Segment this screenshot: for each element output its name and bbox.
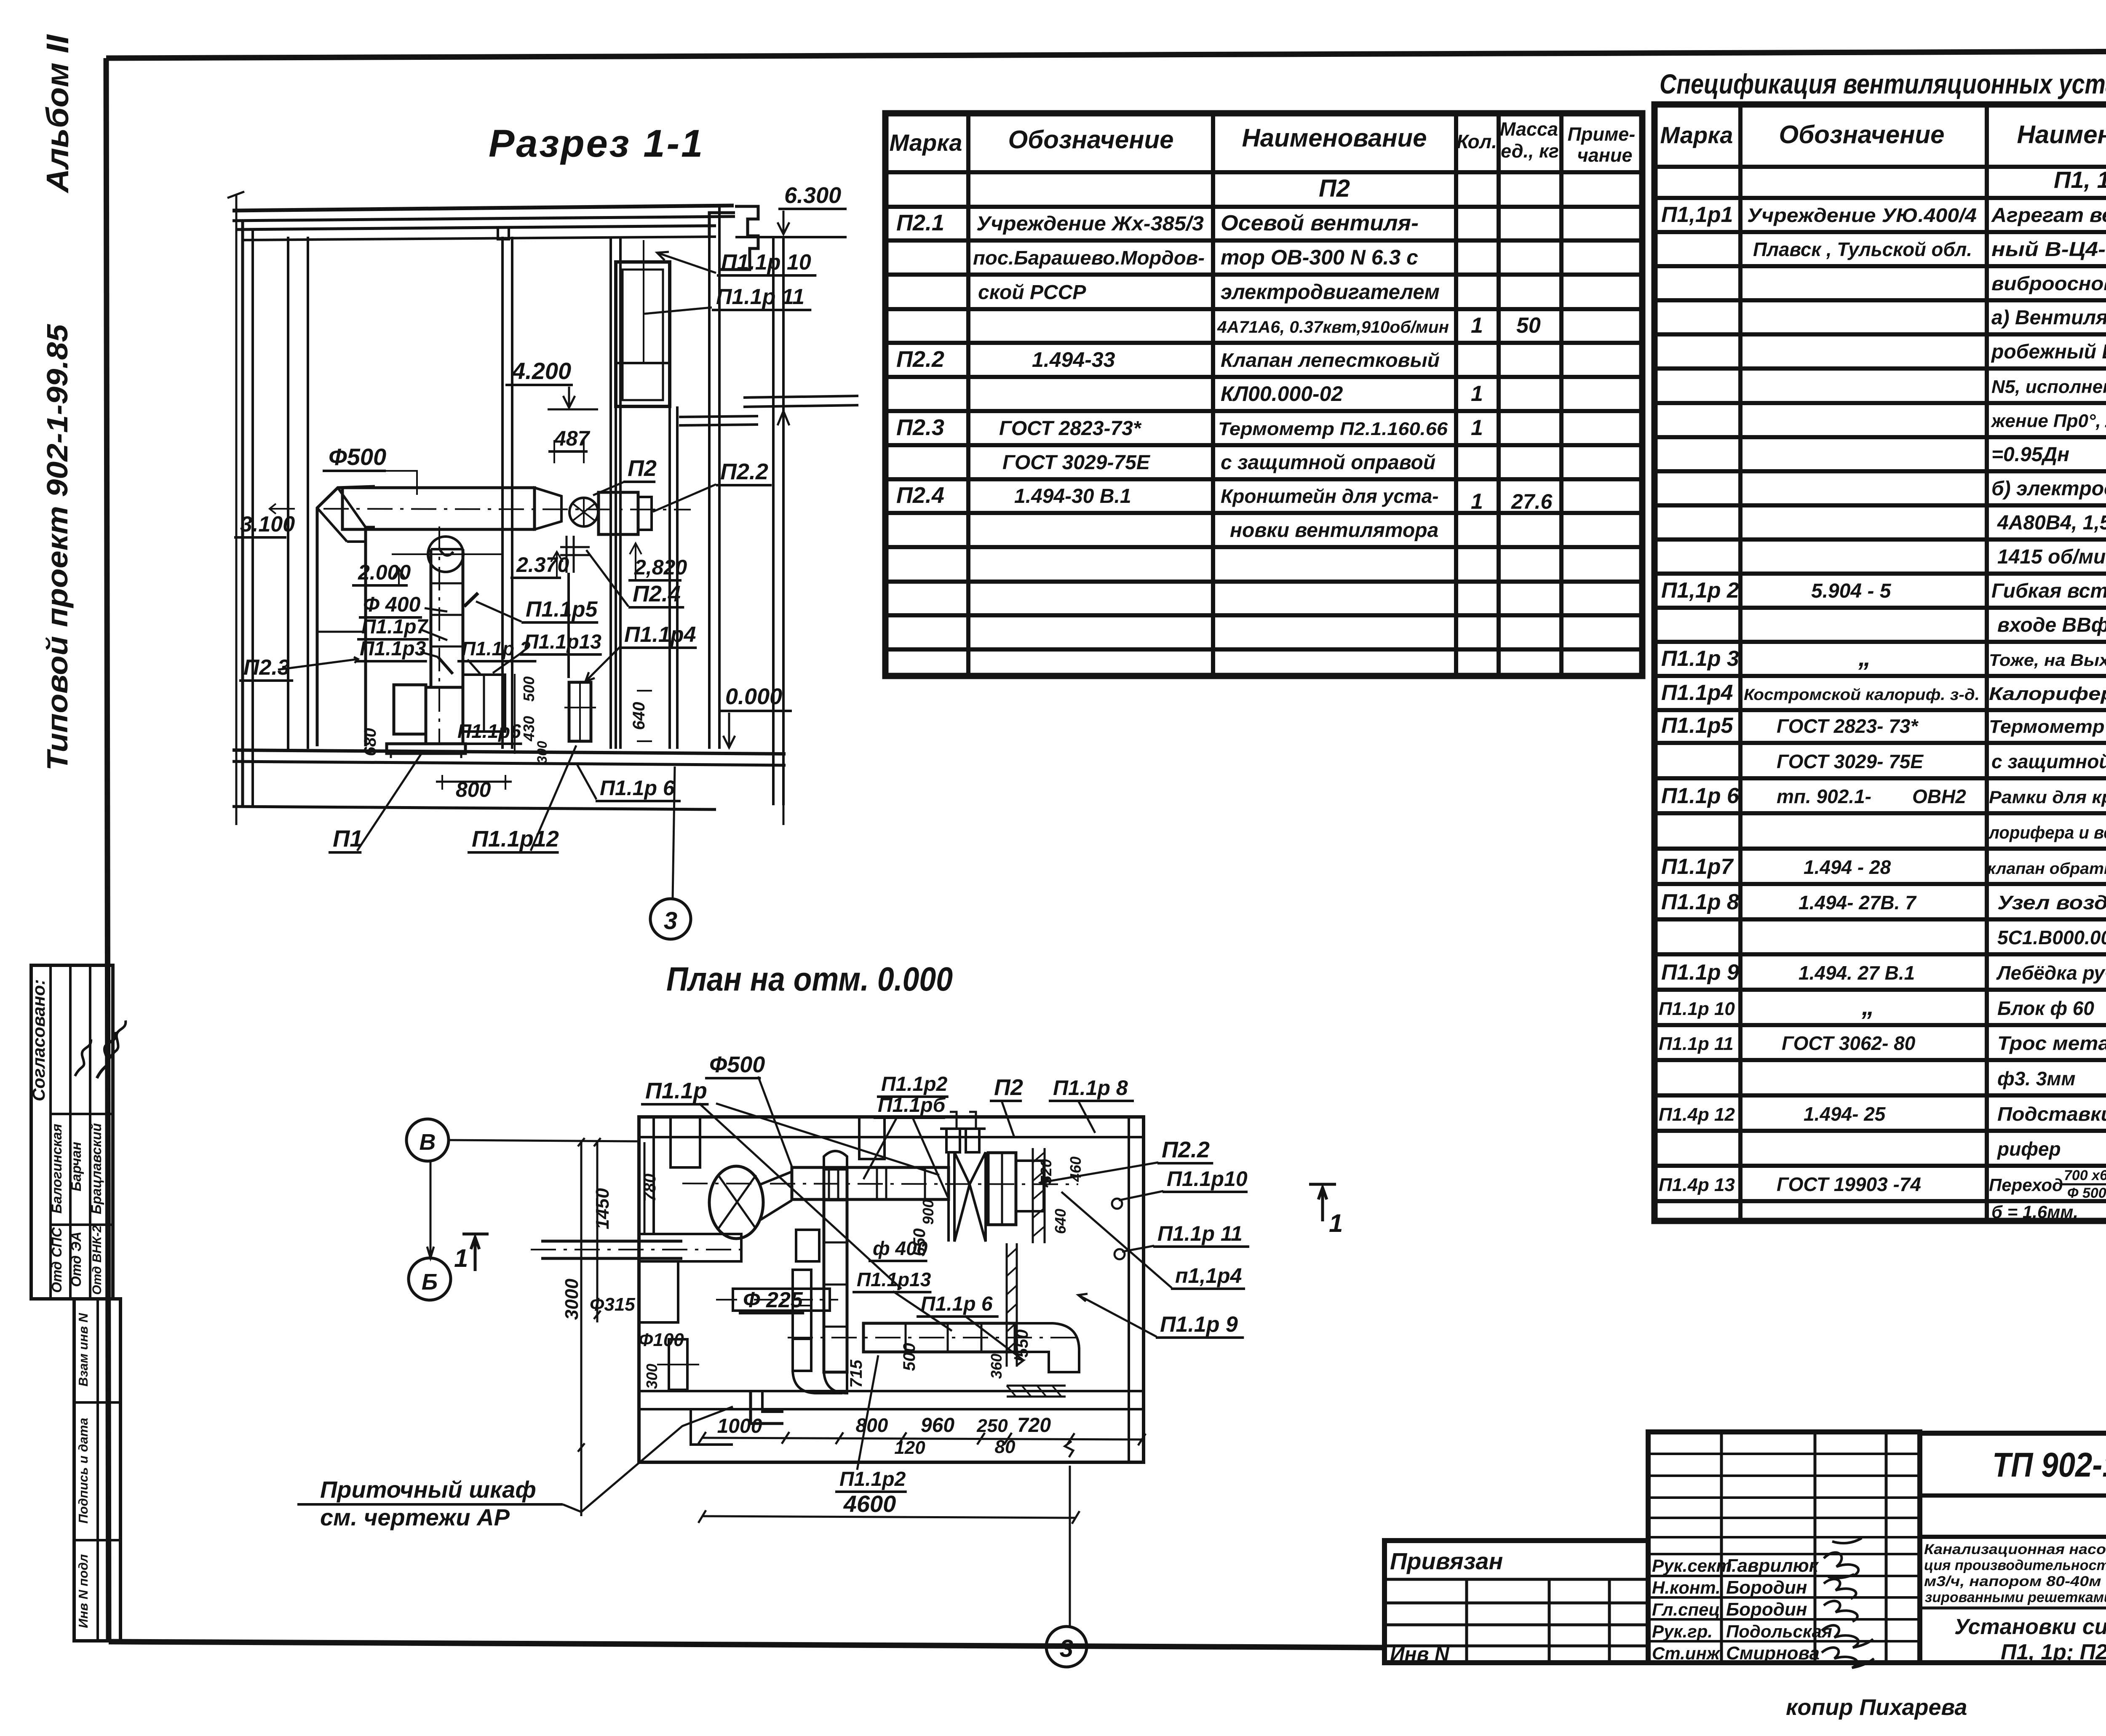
svg-text:виброосновании комп.: виброосновании комп.	[1991, 272, 2106, 294]
svg-text:Альбом II: Альбом II	[40, 34, 75, 194]
svg-text:П1.1р12: П1.1р12	[472, 826, 559, 852]
svg-text:тп. 902.1-: тп. 902.1-	[1777, 785, 1871, 807]
plan: second vertical duct leg	[793, 1270, 811, 1371]
svg-text:500: 500	[900, 1343, 919, 1371]
svg-text:360: 360	[988, 1354, 1005, 1379]
svg-text:N5, исполнение 1, поло-: N5, исполнение 1, поло-	[1991, 377, 2106, 397]
svg-text:Приточный шкаф: Приточный шкаф	[320, 1476, 536, 1503]
svg-text:Бородин: Бородин	[1726, 1577, 1807, 1598]
svg-text:27.6: 27.6	[1511, 490, 1553, 513]
svg-text:П1.1р 9: П1.1р 9	[1160, 1312, 1238, 1337]
plan: small pipe F100 lower-left	[669, 1339, 687, 1390]
svg-text:П1.1р6: П1.1р6	[457, 720, 521, 742]
plan: duct piece to wall	[1016, 1161, 1044, 1211]
section: wall below window	[615, 406, 617, 749]
plan: bottom hatched strip	[1007, 1386, 1061, 1397]
svg-text:П2.4: П2.4	[896, 483, 944, 508]
title block: middle signature grid	[1648, 1432, 1920, 1663]
svg-text:Отд ЭА: Отд ЭА	[68, 1231, 84, 1287]
svg-text:П1.1р 9: П1.1р 9	[1661, 960, 1739, 985]
svg-text:2.370: 2.370	[516, 553, 569, 577]
svg-text:800: 800	[856, 1414, 888, 1436]
section: right floor unit P1.1r4	[569, 682, 591, 741]
svg-text:Разрез 1-1: Разрез 1-1	[489, 122, 704, 165]
svg-text:780: 780	[641, 1174, 659, 1202]
svg-text:Калорифер КсК3-6-02: Калорифер КсК3-6-02	[1989, 684, 2106, 704]
svg-text:клапан обратный КОВ1Ф400: клапан обратный КОВ1Ф400	[1987, 860, 2106, 878]
svg-text:ГОСТ 2823- 73*: ГОСТ 2823- 73*	[1777, 715, 1919, 737]
svg-text:Б: Б	[422, 1269, 438, 1295]
svg-text:Тоже, на Выходе ВЧ 01-13: Тоже, на Выходе ВЧ 01-13	[1989, 651, 2106, 670]
svg-text:Ст.инж.: Ст.инж.	[1652, 1643, 1724, 1663]
plan: axis circle B	[409, 1258, 451, 1300]
svg-text:П1.4р 12: П1.4р 12	[1659, 1104, 1735, 1125]
svg-text:П1.1р2: П1.1р2	[881, 1073, 948, 1095]
section: right shelf lines	[679, 416, 758, 417]
svg-text:Узел воздухозабора: Узел воздухозабора	[1997, 892, 2106, 913]
plan: section cut mark 1 (right)	[1309, 1184, 1336, 1221]
svg-text:новки вентилятора: новки вентилятора	[1230, 519, 1438, 542]
svg-text:430: 430	[520, 716, 537, 742]
plan: hatched interior wall lower	[1006, 1243, 1008, 1367]
svg-text:П1.1р4: П1.1р4	[1661, 681, 1733, 705]
svg-text:1.494- 25: 1.494- 25	[1804, 1103, 1886, 1125]
svg-text:Приме-: Приме-	[1568, 123, 1636, 145]
svg-text:4.200: 4.200	[512, 358, 571, 384]
plan: duct centerline lower	[788, 1337, 1078, 1338]
svg-text:1: 1	[1471, 313, 1483, 338]
svg-text:50: 50	[1516, 313, 1541, 338]
svg-text:715: 715	[847, 1359, 866, 1388]
svg-text:П1.1р13: П1.1р13	[524, 631, 601, 653]
svg-text:4600: 4600	[843, 1490, 896, 1517]
svg-text:с защитной оправой.: с защитной оправой.	[1991, 750, 2106, 772]
svg-text:Типовой проект 902-1-99.85: Типовой проект 902-1-99.85	[41, 324, 74, 771]
svg-text:П2.3: П2.3	[243, 655, 290, 680]
svg-text:ГОСТ 3029- 75Е: ГОСТ 3029- 75Е	[1777, 750, 1924, 772]
svg-text:Ф 400: Ф 400	[363, 593, 421, 616]
svg-text:ГОСТ 19903 -74: ГОСТ 19903 -74	[1777, 1173, 1921, 1195]
inventory stamp strip (rotated)	[74, 1299, 120, 1641]
plan: axis line V-B	[430, 1161, 432, 1258]
svg-text:Кронштейн для уста-: Кронштейн для уста-	[1221, 485, 1439, 507]
plan: air intake vertical oval	[709, 1166, 763, 1239]
plan: leader lines from P1.1r label	[699, 1103, 901, 1289]
svg-text:1.494 - 28: 1.494 - 28	[1804, 856, 1891, 878]
svg-text:Наименование: Наименование	[1242, 124, 1427, 152]
svg-text:м3/ч, напором 80-40м с механи-: м3/ч, напором 80-40м с механи-	[1924, 1573, 2106, 1589]
svg-text:4А71А6, 0.37квт,910об/мин: 4А71А6, 0.37квт,910об/мин	[1217, 318, 1449, 337]
svg-text:П1.1р 10: П1.1р 10	[721, 250, 811, 275]
svg-text:Подпись и дата: Подпись и дата	[76, 1418, 91, 1523]
svg-text:Гаврилюк: Гаврилюк	[1726, 1555, 1820, 1576]
svg-text:Гибкая вставка на: Гибкая вставка на	[1991, 580, 2106, 602]
svg-text:лорифера и вентиляторов: лорифера и вентиляторов	[1988, 823, 2106, 842]
svg-text:пос.Барашево.Мордов-: пос.Барашево.Мордов-	[973, 247, 1205, 269]
section: diagonal brace mark	[438, 657, 453, 674]
svg-text:„: „	[1861, 992, 1874, 1020]
svg-text:В: В	[420, 1130, 436, 1155]
svg-text:680: 680	[361, 728, 380, 756]
svg-text:Инв N подл: Инв N подл	[76, 1554, 91, 1628]
svg-text:Инв N: Инв N	[1390, 1643, 1450, 1666]
svg-text:Термометр П2.1.160.66: Термометр П2.1.160.66	[1218, 419, 1448, 439]
section: roof slab	[233, 206, 734, 211]
svg-text:П1.1р: П1.1р	[645, 1078, 707, 1103]
section: left dimension line	[235, 195, 238, 825]
svg-text:Термометр П2.1.160. 66: Термометр П2.1.160. 66	[1989, 716, 2106, 737]
plan: axis circle V	[406, 1119, 449, 1161]
plan: lower duct right elbow to wall	[1015, 1323, 1079, 1372]
svg-text:„: „	[1858, 643, 1871, 671]
plan: interior partition left	[639, 1234, 741, 1261]
svg-text:460: 460	[1067, 1156, 1084, 1182]
svg-text:П1, 1р; П2: П1, 1р; П2	[2001, 1640, 2106, 1664]
svg-text:П1.1р 11: П1.1р 11	[1659, 1034, 1734, 1054]
svg-text:Ф500: Ф500	[709, 1052, 765, 1077]
svg-text:жение Пр0°, Л0°, Дк =: жение Пр0°, Л0°, Дк =	[1991, 411, 2106, 431]
svg-text:Плавск , Тульской обл.: Плавск , Тульской обл.	[1753, 238, 1972, 260]
svg-text:5С1.В000.000. 03: 5С1.В000.000. 03	[1997, 927, 2106, 948]
right specification table grid	[1654, 104, 2106, 1221]
svg-text:Учреждение УЮ.400/4: Учреждение УЮ.400/4	[1747, 204, 1977, 226]
svg-text:250: 250	[976, 1416, 1008, 1436]
svg-text:550: 550	[910, 1229, 929, 1257]
svg-text:Подставки под кало-: Подставки под кало-	[1997, 1103, 2106, 1125]
svg-text:тор ОВ-300 N 6.3 с: тор ОВ-300 N 6.3 с	[1221, 246, 1418, 269]
section: right tall dimension line	[783, 411, 785, 825]
svg-text:Отд СПС: Отд СПС	[49, 1227, 64, 1293]
svg-text:1.494. 27 В.1: 1.494. 27 В.1	[1799, 962, 1915, 984]
svg-text:робежный В-Ц4-70: робежный В-Ц4-70	[1991, 341, 2106, 363]
section: axial fan P2	[569, 498, 598, 526]
svg-text:б = 1.6мм.: б = 1.6мм.	[1991, 1202, 2078, 1222]
soglasovano approval stamp (rotated)	[31, 965, 113, 1299]
plan: duct through left wall lower F225	[733, 1289, 830, 1311]
svg-text:Ф 225: Ф 225	[743, 1288, 803, 1312]
plan: hatched interior wall upper	[1032, 1148, 1034, 1243]
svg-text:900: 900	[919, 1199, 937, 1225]
svg-text:5.904 - 5: 5.904 - 5	[1811, 580, 1892, 602]
svg-text:П1.1р 6: П1.1р 6	[600, 776, 675, 800]
svg-text:4А80В4, 1,5квт: 4А80В4, 1,5квт	[1997, 512, 2106, 534]
svg-text:Обозначение: Обозначение	[1779, 120, 1944, 149]
svg-text:1: 1	[1329, 1209, 1343, 1237]
section: right wall top step / eaves	[709, 213, 735, 237]
svg-text:3000: 3000	[561, 1279, 582, 1320]
svg-text:550: 550	[1013, 1330, 1032, 1358]
svg-text:ТП 902-1- 99.85 - ОВ: ТП 902-1- 99.85 - ОВ	[1992, 1446, 2106, 1484]
plan: supply fan symbol P2 (plan)	[954, 1152, 970, 1242]
svg-text:Барчан: Барчан	[68, 1142, 84, 1191]
svg-text:Ф315: Ф315	[590, 1294, 635, 1315]
svg-text:ед., кг: ед., кг	[1501, 140, 1559, 162]
svg-text:П1.1р5: П1.1р5	[526, 597, 598, 622]
svg-text:П2.3: П2.3	[896, 415, 944, 440]
svg-text:Бородин: Бородин	[1726, 1599, 1807, 1620]
svg-text:ция производительностью 400-20: ция производительностью 400-2000	[1924, 1557, 2106, 1573]
svg-text:П1.1р 8: П1.1р 8	[1661, 890, 1739, 914]
section: left vertical duct run	[317, 631, 366, 633]
svg-text:Осевой вентиля-: Осевой вентиля-	[1221, 211, 1419, 235]
svg-text:П1.4р 13: П1.4р 13	[1659, 1175, 1735, 1195]
plan: duct centerline upper	[682, 1183, 1078, 1184]
svg-text:Смирнова: Смирнова	[1726, 1643, 1820, 1664]
svg-text:487: 487	[554, 427, 591, 450]
plan: left dimension chain	[596, 1142, 599, 1322]
section: supply duct horizontal	[342, 488, 535, 529]
svg-text:120: 120	[894, 1437, 925, 1458]
svg-text:300: 300	[643, 1364, 660, 1389]
svg-text:Установки систем: Установки систем	[1954, 1615, 2106, 1639]
svg-text:П2.2: П2.2	[1162, 1137, 1210, 1162]
plan: outer walls	[639, 1117, 1144, 1462]
svg-text:П2.1: П2.1	[896, 210, 944, 235]
svg-text:зированными решетками: зированными решетками	[1925, 1589, 2106, 1605]
svg-text:Подольская: Подольская	[1726, 1621, 1832, 1641]
svg-text:П1,1р 2: П1,1р 2	[1661, 578, 1739, 603]
section: fan unit lower left	[394, 685, 426, 734]
svg-text:300: 300	[535, 741, 550, 764]
plan: fan motors top	[946, 1129, 960, 1152]
svg-text:Обозначение: Обозначение	[1008, 126, 1173, 154]
svg-text:П1.1р2: П1.1р2	[839, 1468, 906, 1490]
svg-text:П2.2: П2.2	[896, 347, 944, 372]
svg-text:Масса: Масса	[1500, 118, 1558, 140]
svg-text:П1.1р 3: П1.1р 3	[1661, 646, 1739, 671]
svg-text:Блок ф 60: Блок ф 60	[1997, 997, 2094, 1019]
svg-text:см. чертежи АР: см. чертежи АР	[320, 1504, 510, 1530]
plan: central vertical duct	[824, 1151, 847, 1169]
section: central vertical duct F400	[430, 549, 433, 686]
section: central duct axis	[438, 526, 440, 744]
section: dashed riser	[514, 674, 516, 754]
svg-text:700 х600: 700 х600	[2064, 1167, 2106, 1183]
svg-text:П1.1р7: П1.1р7	[1661, 855, 1734, 879]
title block: left attachment box	[1384, 1541, 1648, 1663]
svg-text:1450: 1450	[592, 1188, 613, 1229]
svg-text:П1.1р7: П1.1р7	[361, 616, 429, 638]
section: damper handle	[464, 593, 478, 606]
svg-text:Привязан: Привязан	[1390, 1548, 1503, 1574]
svg-text:1: 1	[1471, 489, 1483, 514]
plan: break mark bottom wall	[1065, 1441, 1073, 1457]
svg-text:П2.2: П2.2	[720, 459, 768, 484]
svg-text:П1.1р10: П1.1р10	[1167, 1167, 1248, 1191]
svg-text:Марка: Марка	[890, 129, 962, 156]
section: roof hanger clip	[498, 227, 509, 239]
svg-text:80: 80	[995, 1437, 1016, 1457]
svg-text:П1.1р 2: П1.1р 2	[462, 638, 531, 660]
svg-text:Костромской калориф. з-д.: Костромской калориф. з-д.	[1744, 686, 1980, 704]
plan: upper duct run	[792, 1167, 949, 1199]
svg-text:=0.95Дн: =0.95Дн	[1991, 443, 2069, 466]
svg-text:Взам инв N: Взам инв N	[76, 1313, 91, 1386]
svg-text:Согласовано:: Согласовано:	[29, 979, 48, 1101]
svg-text:Марка: Марка	[1660, 122, 1733, 148]
svg-text:1: 1	[1471, 382, 1483, 406]
svg-text:входе ВВф-20: входе ВВф-20	[1997, 614, 2106, 636]
svg-text:Балогинская: Балогинская	[49, 1124, 64, 1213]
svg-text:Агрегат вентилятор: Агрегат вентилятор	[1991, 204, 2106, 227]
svg-text:Рук.гр.: Рук.гр.	[1652, 1621, 1713, 1641]
svg-text:1: 1	[1471, 416, 1483, 440]
plan: lower duct run	[863, 1323, 1015, 1352]
title block: signatures squiggles	[1824, 1538, 1862, 1576]
svg-text:2,820: 2,820	[634, 556, 687, 579]
svg-text:КЛ00.000-02: КЛ00.000-02	[1221, 382, 1343, 406]
plan: lower-left L pipe	[751, 1390, 783, 1424]
svg-text:П1.1р4: П1.1р4	[624, 622, 696, 647]
plan: oval to duct transition	[761, 1172, 792, 1220]
svg-text:ОВН2: ОВН2	[1912, 785, 1966, 807]
svg-text:ный В-Ц4-70- 5-04 на: ный В-Ц4-70- 5-04 на	[1991, 238, 2106, 261]
section: walls	[241, 221, 244, 805]
svg-text:П1.1р13: П1.1р13	[857, 1269, 931, 1290]
svg-text:п1,1р4: п1,1р4	[1175, 1264, 1242, 1287]
svg-text:Клапан лепестковый: Клапан лепестковый	[1221, 349, 1440, 371]
svg-text:Наименование: Наименование	[2017, 120, 2106, 149]
svg-text:ГОСТ 3062- 80: ГОСТ 3062- 80	[1782, 1032, 1916, 1054]
svg-text:Рамки для крепления ка-: Рамки для крепления ка-	[1989, 787, 2106, 807]
svg-text:П2: П2	[994, 1075, 1023, 1100]
plan: axis circle 3 below	[1046, 1626, 1087, 1667]
section: floor slab	[233, 750, 786, 754]
svg-text:электродвигателем: электродвигателем	[1221, 280, 1440, 304]
svg-text:П1.1р 8: П1.1р 8	[1053, 1076, 1128, 1100]
section: fan support bracket P2.4	[560, 536, 590, 573]
svg-text:640: 640	[630, 702, 648, 730]
svg-text:П2: П2	[1319, 175, 1350, 202]
svg-text:П2: П2	[628, 456, 657, 481]
svg-text:500: 500	[520, 676, 537, 702]
plan: 4600 dimension	[702, 1516, 1076, 1518]
left specification table grid	[885, 113, 1642, 676]
svg-text:П1,1р1: П1,1р1	[1661, 203, 1733, 227]
svg-text:Трос металлический: Трос металлический	[1997, 1032, 2106, 1054]
section: duct transition to fan	[535, 488, 561, 529]
svg-text:720: 720	[1017, 1414, 1051, 1437]
svg-text:520: 520	[1037, 1159, 1055, 1184]
svg-text:П1.1р 6: П1.1р 6	[1661, 784, 1740, 808]
svg-text:П1.1р 11: П1.1р 11	[1157, 1222, 1243, 1245]
svg-text:1.494- 27В. 7: 1.494- 27В. 7	[1799, 892, 1917, 913]
svg-text:640: 640	[1052, 1209, 1069, 1234]
section: window in right wall	[616, 262, 670, 406]
section: duct damper circle	[428, 537, 463, 572]
svg-text:с защитной оправой: с защитной оправой	[1221, 451, 1435, 474]
sheet frame	[106, 51, 2106, 58]
title block: right section	[1920, 1433, 2106, 1663]
svg-text:3: 3	[664, 907, 677, 935]
svg-text:Ф100: Ф100	[639, 1330, 684, 1350]
svg-text:ской РССР: ской РССР	[978, 281, 1086, 304]
svg-text:П1.1р 11: П1.1р 11	[716, 285, 804, 309]
plan: leader line F500	[758, 1076, 792, 1167]
svg-text:2.000: 2.000	[358, 561, 411, 584]
plan: heater box right	[988, 1153, 1016, 1225]
approval signatures	[97, 1032, 116, 1078]
svg-text:Лебёдка ручная: Лебёдка ручная	[1996, 962, 2106, 984]
svg-text:рифер: рифер	[1996, 1138, 2061, 1160]
svg-text:Брацлавский: Брацлавский	[88, 1123, 104, 1215]
svg-text:Переход: Переход	[1989, 1175, 2063, 1195]
svg-text:План на отм. 0.000: План на отм. 0.000	[666, 960, 953, 998]
svg-text:П1.1р3: П1.1р3	[360, 638, 426, 660]
svg-text:960: 960	[921, 1414, 954, 1437]
plan: left entering duct F500	[541, 1240, 682, 1243]
svg-text:б) электродвигатель: б) электродвигатель	[1991, 478, 2106, 500]
title block: TP number cell	[1920, 1493, 2106, 1498]
svg-text:3.100: 3.100	[240, 512, 295, 537]
svg-text:ГОСТ 2823-73*: ГОСТ 2823-73*	[999, 417, 1142, 440]
svg-text:П2.4: П2.4	[633, 581, 681, 606]
svg-text:копир Пихарева: копир Пихарева	[1786, 1695, 1967, 1720]
svg-text:1000: 1000	[717, 1415, 762, 1437]
svg-text:Рук.сект.: Рук.сект.	[1652, 1556, 1737, 1576]
svg-text:Учреждение Жх-385/3: Учреждение Жх-385/3	[976, 213, 1204, 235]
svg-text:а) Вентилятор цент-: а) Вентилятор цент-	[1991, 307, 2106, 329]
svg-text:П1.1р5: П1.1р5	[1661, 713, 1733, 738]
svg-text:П1.1р 6: П1.1р 6	[921, 1293, 993, 1315]
svg-text:1.494-33: 1.494-33	[1032, 348, 1115, 371]
svg-text:Спецификация вентиляционных ус: Спецификация вентиляционных установок П1…	[1660, 68, 2106, 99]
svg-text:1.494-30 В.1: 1.494-30 В.1	[1014, 485, 1131, 507]
section: heater box P1.1r13	[463, 675, 505, 732]
plan: axis line V	[449, 1140, 638, 1141]
svg-text:Ф 500: Ф 500	[2067, 1185, 2106, 1201]
section: ceiling line	[242, 237, 716, 240]
svg-text:0.000: 0.000	[725, 684, 782, 709]
svg-text:ГОСТ 3029-75Е: ГОСТ 3029-75Е	[1002, 451, 1151, 474]
svg-text:чание: чание	[1577, 144, 1633, 166]
section: duct centerline	[323, 509, 691, 510]
svg-text:Канализационная насосная стан-: Канализационная насосная стан-	[1924, 1541, 2106, 1557]
plan: bottom dimension chain	[702, 1438, 1143, 1440]
section: reference axis circle 3	[650, 899, 691, 939]
plan: interior column mid	[796, 1230, 819, 1261]
svg-text:3: 3	[1060, 1635, 1073, 1662]
section: window hoist dashed axis	[643, 240, 644, 363]
svg-text:П1, 1р: П1, 1р	[2054, 166, 2106, 193]
svg-text:1415 об/мин: 1415 об/мин	[1997, 546, 2106, 568]
svg-text:6.300: 6.300	[784, 183, 841, 208]
section: left duct elbow	[317, 486, 375, 746]
svg-text:Н.конт.: Н.конт.	[1652, 1578, 1721, 1597]
svg-text:П1.1р 10: П1.1р 10	[1659, 999, 1735, 1019]
svg-text:1: 1	[454, 1244, 468, 1272]
svg-text:Отд ВНК-2: Отд ВНК-2	[90, 1225, 104, 1295]
svg-text:ф3. 3мм: ф3. 3мм	[1997, 1068, 2075, 1090]
svg-text:П1.1рб: П1.1рб	[878, 1094, 946, 1116]
plan: top wall column stubs	[671, 1117, 700, 1167]
svg-text:Ф500: Ф500	[329, 443, 386, 470]
svg-text:Кол.: Кол.	[1457, 131, 1497, 152]
plan: interior partition bottom-left room	[691, 1409, 733, 1445]
svg-text:Гл.спец: Гл.спец	[1652, 1600, 1720, 1619]
